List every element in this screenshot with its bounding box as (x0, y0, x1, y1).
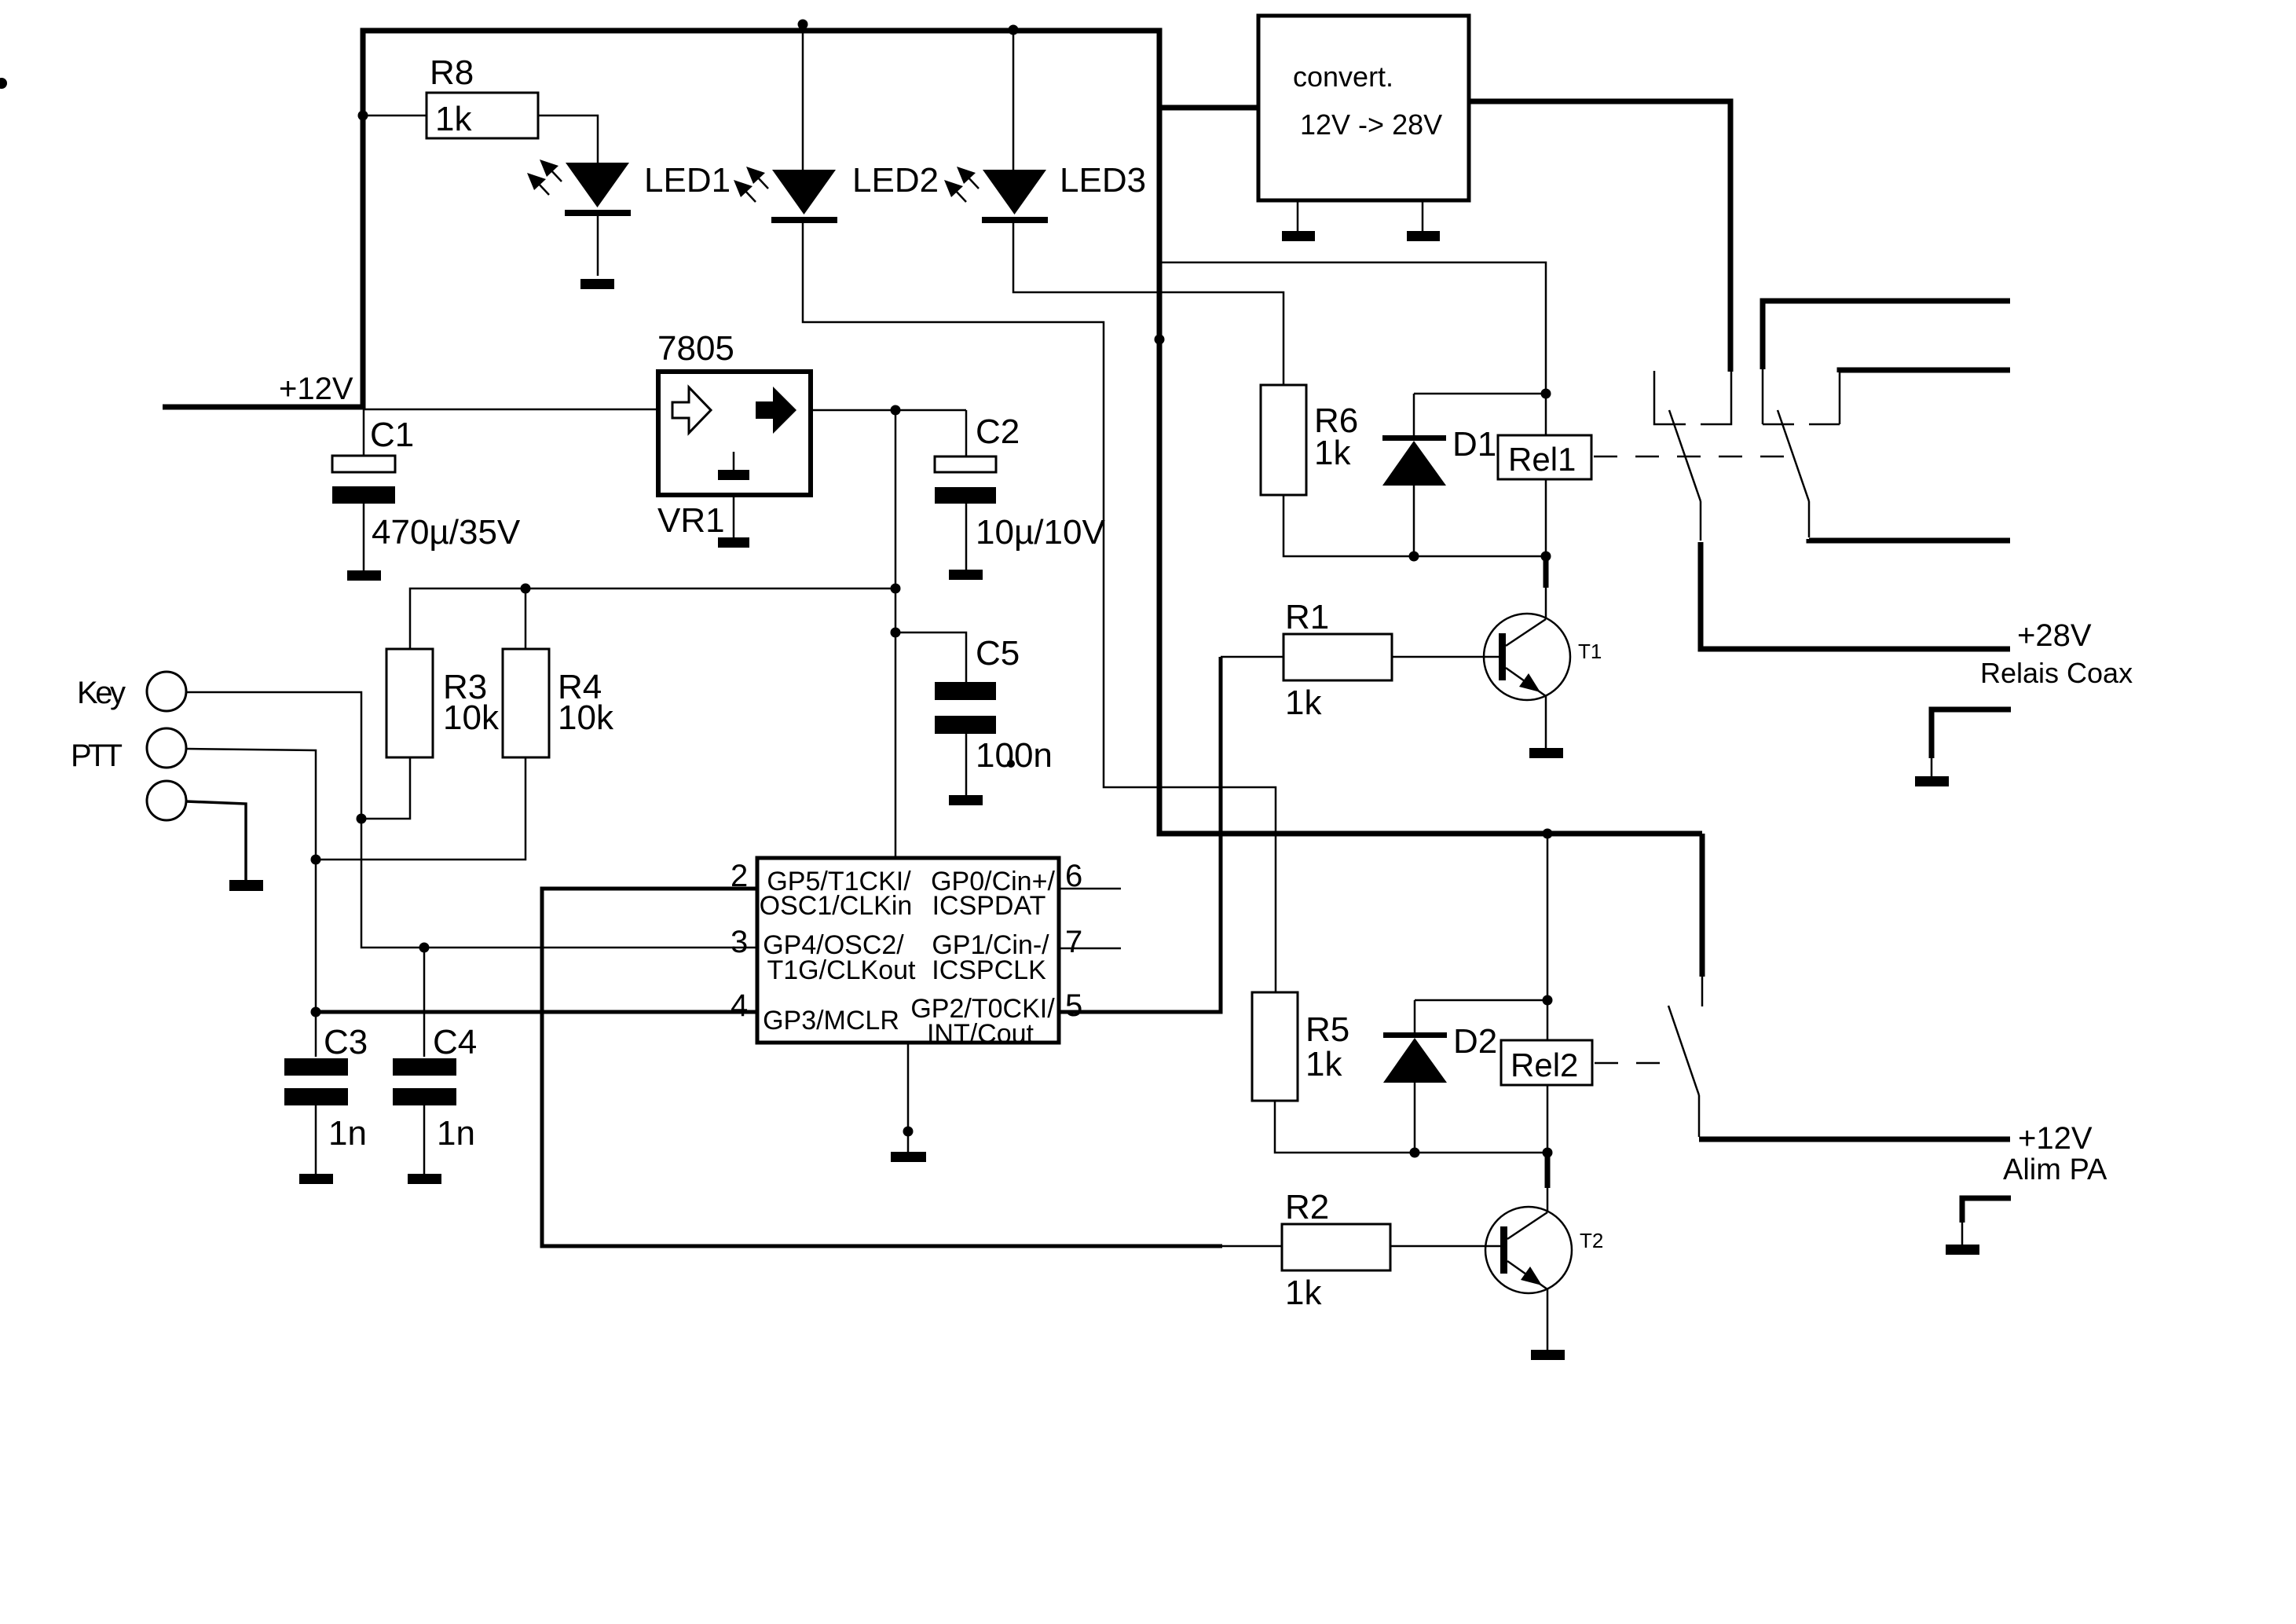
svg-text:4: 4 (731, 988, 748, 1023)
LED LED3 (944, 167, 1048, 223)
ground converter 2 (1407, 231, 1440, 241)
svg-text:Key: Key (77, 676, 126, 710)
wire T2 emitter (1547, 1289, 1549, 1350)
svg-text:3: 3 (731, 925, 748, 959)
icon 7805 output arrow (756, 387, 796, 434)
wire pin4 MCLR (316, 1010, 757, 1014)
wire converter output 28V (1469, 101, 1730, 372)
svg-text:+12V: +12V (2018, 1121, 2093, 1156)
wire TX line out (1808, 501, 1811, 537)
wire R5 bottom (1275, 1101, 1547, 1153)
svg-text:D2: D2 (1453, 1022, 1497, 1061)
connector PTT (147, 728, 186, 768)
ground T2 (1531, 1350, 1565, 1360)
wire contact stub NC (1654, 371, 1686, 424)
svg-text:R5: R5 (1305, 1010, 1349, 1049)
node junction dot LED2 (798, 20, 808, 30)
resistor R6 (1261, 385, 1306, 495)
relay coil Rel1 (1498, 435, 1591, 479)
LED LED2 (734, 167, 837, 223)
svg-text:Rel2: Rel2 (1511, 1047, 1578, 1083)
ground C3 (299, 1174, 333, 1184)
switch Rel1 contact B (1778, 410, 1809, 501)
svg-text:5: 5 (1065, 988, 1082, 1023)
wire line B top right (1840, 370, 2010, 372)
wire converter ground stub 2 (1422, 200, 1424, 231)
ground LED1 (580, 279, 614, 289)
resistor R5 (1252, 992, 1298, 1101)
ground C2 (949, 570, 983, 580)
diode D1 (1413, 394, 1415, 435)
node junction dot rail Vdd (891, 584, 901, 594)
svg-text:12V -> 28V: 12V -> 28V (1300, 108, 1442, 141)
wire 7805 output 5V (811, 409, 966, 412)
ground 7805 (718, 537, 749, 548)
wire +12V top rail (363, 31, 1702, 834)
ground C5 (949, 795, 983, 805)
wire 12V to Rel1 coil (1159, 262, 1546, 435)
svg-text:1k: 1k (1285, 684, 1322, 722)
node junction dot C5 tap (891, 628, 901, 638)
LED LED1 (527, 159, 631, 276)
ground spare (229, 880, 263, 891)
node junction dot LED3 (1009, 25, 1019, 35)
wire Rel2 to T2 (1547, 1085, 1549, 1153)
svg-text:ICSPCLK: ICSPCLK (932, 955, 1046, 985)
node junction dot Rel1 bottom (1541, 552, 1551, 562)
wire pin5 to R1 (1059, 657, 1221, 1012)
svg-text:10k: 10k (443, 698, 500, 737)
node junction dot on 12V bus (1155, 335, 1165, 345)
wire LED2 cathode to R5 (803, 223, 1276, 992)
diode D2 (1414, 1000, 1416, 1032)
capacitor C2 (965, 410, 968, 456)
svg-text:PTT: PTT (71, 739, 123, 773)
svg-text:C4: C4 (433, 1023, 477, 1061)
resistor R4 (503, 649, 549, 757)
wire 12V to Rel2 coil (1547, 834, 1549, 1040)
transistor T1 (1484, 614, 1570, 700)
ground C4 (408, 1174, 441, 1184)
wire converter ground stub 1 (1297, 200, 1299, 231)
wire pin7 stub (1059, 948, 1121, 950)
svg-text:ICSPDAT: ICSPDAT (932, 891, 1046, 921)
wire Rel1 to T1 (1545, 479, 1547, 556)
svg-text:7: 7 (1065, 925, 1082, 959)
connector Key (147, 672, 186, 711)
wire pin2 to R2 run (542, 889, 1222, 1246)
wire spare to ground (186, 801, 246, 880)
switch Rel1 contact A (1669, 410, 1701, 501)
node junction dot Rel1 top (1541, 389, 1551, 399)
ground T1 (1529, 748, 1563, 758)
node junction dot Vss (903, 1127, 914, 1137)
wire LED3 cathode to R6 (1013, 223, 1283, 385)
svg-text:10k: 10k (558, 698, 614, 737)
ground Alim PA return (1962, 1198, 2011, 1223)
svg-text:C2: C2 (976, 412, 1020, 451)
wire 5V rail (410, 588, 895, 649)
wire Rel2 contact feed (1700, 834, 1705, 977)
svg-text:R1: R1 (1285, 598, 1329, 636)
svg-text:T2: T2 (1580, 1229, 1603, 1252)
svg-text:VR1: VR1 (657, 501, 725, 540)
ground PIC Vss (891, 1152, 926, 1162)
wire R4 top (525, 588, 527, 649)
resistor R2 (1282, 1224, 1390, 1270)
resistor R1 (1283, 634, 1392, 680)
wire R1 left (1221, 656, 1283, 658)
ground Relais Coax return (1932, 709, 2011, 758)
svg-text:7805: 7805 (657, 329, 734, 368)
wire +28V out (1700, 501, 1702, 541)
relay coil Rel2 (1501, 1040, 1592, 1085)
wire Rel1 collector link (1543, 556, 1549, 588)
svg-text:C1: C1 (370, 416, 414, 454)
node junction dot PTT pin4 (311, 1007, 321, 1017)
svg-text:+28V: +28V (2017, 618, 2092, 653)
svg-text:C3: C3 (324, 1023, 368, 1061)
switch Rel2 contact (1668, 1006, 1699, 1095)
wire Vss stub (907, 1043, 910, 1152)
resistor R3 (386, 649, 433, 757)
svg-text:convert.: convert. (1293, 60, 1393, 93)
wire R4 bottom (316, 757, 525, 860)
node junction dot PTT R4 (311, 855, 321, 865)
wire contact tick feed 28V (1701, 372, 1731, 424)
stray dot left margin (0, 78, 7, 89)
node junction dot Rel2 top (1543, 995, 1553, 1006)
svg-text:470µ/35V: 470µ/35V (372, 513, 521, 552)
wire LED2 anode (802, 31, 804, 170)
capacitor C4 (423, 948, 426, 1057)
node junction dot R8 tap (358, 111, 368, 121)
svg-text:100n: 100n (976, 736, 1053, 775)
svg-text:10µ/10V: 10µ/10V (976, 513, 1105, 552)
node junction dot Rel2 bottom (1543, 1148, 1553, 1158)
capacitor C5 (895, 632, 966, 682)
svg-text:Rel1: Rel1 (1508, 441, 1576, 478)
transistor T2 (1485, 1207, 1572, 1293)
wire R6 bottom (1283, 495, 1546, 556)
svg-text:1k: 1k (1285, 1274, 1322, 1312)
ground converter 1 (1282, 231, 1315, 241)
wire R3 bottom (361, 757, 410, 819)
wire +12V input rail (163, 405, 363, 410)
wire LED3 anode (1013, 31, 1015, 170)
svg-text:R8: R8 (430, 53, 474, 92)
wire R1 to T1 base (1392, 656, 1500, 658)
svg-text:+12V: +12V (279, 372, 353, 406)
svg-text:Relais Coax: Relais Coax (1980, 657, 2133, 689)
svg-text:LED3: LED3 (1060, 161, 1146, 200)
wire R2 left (1222, 1245, 1282, 1248)
wire R2 to T2 base (1390, 1245, 1502, 1248)
wire Vdd vertical to PIC (895, 410, 897, 858)
svg-text:GP3/MCLR: GP3/MCLR (763, 1006, 899, 1036)
icon 7805 input arrow (672, 387, 711, 433)
regulator VR1 7805 box (658, 372, 811, 495)
node junction dot 5V out (891, 405, 901, 416)
svg-text:LED1: LED1 (644, 161, 731, 200)
svg-text:LED2: LED2 (852, 161, 939, 200)
wire converter input (1159, 105, 1258, 111)
IC U1 PIC12F box (757, 858, 1059, 1043)
node stray dot near 100n (1007, 760, 1015, 768)
node junction dot D2 anode (1410, 1148, 1420, 1158)
ground 7805 internal (733, 452, 735, 470)
wire PTT down (186, 749, 316, 1012)
node junction dot Rel2 feed (1543, 829, 1553, 839)
converter box (1258, 16, 1469, 200)
resistor R8 (363, 115, 427, 117)
wire T1 emitter (1545, 696, 1547, 748)
node junction dot rail R4 (521, 584, 531, 594)
wire R8 to LED1 (538, 115, 598, 163)
svg-text:INT/Cout: INT/Cout (927, 1019, 1034, 1049)
wire Key to pin3 (186, 692, 757, 948)
capacitor C3 (315, 1012, 317, 1057)
ground C1 (347, 570, 381, 581)
svg-text:C5: C5 (976, 634, 1020, 673)
svg-text:T1: T1 (1578, 640, 1602, 663)
svg-text:1n: 1n (328, 1114, 367, 1153)
node junction dot Key R3 (357, 814, 367, 824)
wire pin6 stub (1059, 888, 1121, 890)
dashed link Rel1 (1594, 456, 1787, 458)
wire contact tick line A (1763, 423, 1794, 426)
wire contact tick line B (1809, 423, 1840, 426)
svg-text:T1G/CLKout: T1G/CLKout (767, 955, 917, 985)
dashed link Rel2 (1595, 1062, 1676, 1065)
svg-text:1n: 1n (437, 1114, 475, 1153)
node junction dot D1 anode (1409, 552, 1419, 562)
connector spare (147, 781, 186, 820)
wire line A top right (1763, 301, 2010, 369)
svg-text:1k: 1k (1314, 434, 1351, 472)
svg-text:Alim PA: Alim PA (2003, 1153, 2107, 1186)
wire +12V Alim PA out (1698, 1095, 1701, 1137)
capacitor C1 (363, 407, 365, 456)
wire Rel2 collector link (1545, 1153, 1551, 1188)
svg-text:D1: D1 (1452, 425, 1496, 464)
svg-text:R2: R2 (1285, 1188, 1329, 1226)
node junction dot C4 tap (419, 943, 430, 953)
wire 12V to 7805 input (363, 409, 656, 411)
svg-text:OSC1/CLKin: OSC1/CLKin (760, 891, 913, 921)
svg-text:1k: 1k (435, 100, 472, 138)
svg-text:1k: 1k (1305, 1045, 1342, 1083)
wire 7805 ground stub (733, 493, 735, 537)
